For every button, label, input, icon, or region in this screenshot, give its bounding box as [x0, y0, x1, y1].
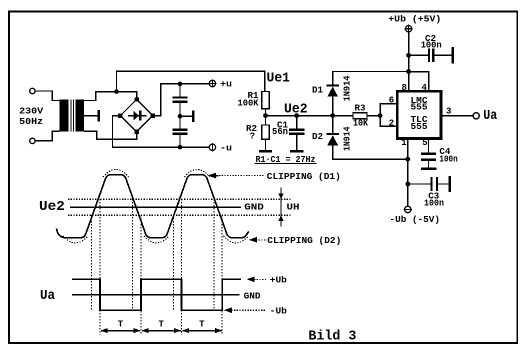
node C1 junction [294, 113, 299, 118]
wire [179, 135, 181, 147]
pin 4 wire [409, 72, 429, 91]
diode D1 [326, 84, 339, 86]
svg-text:100n: 100n [421, 41, 442, 51]
svg-text:D2: D2 [312, 132, 323, 142]
svg-text:CLIPPING (D1): CLIPPING (D1) [267, 172, 341, 182]
svg-text:Ua: Ua [40, 288, 56, 304]
svg-text:4: 4 [421, 83, 427, 93]
svg-text:Ue1: Ue1 [267, 70, 291, 86]
ground cap midpoint [192, 110, 195, 122]
capacitor C2 [428, 48, 430, 62]
transformer T1 secondary winding [76, 100, 85, 132]
ground C4 [421, 168, 436, 171]
wire primary top [35, 91, 59, 101]
svg-text:CLIPPING (D2): CLIPPING (D2) [267, 236, 341, 246]
terminal Ua [473, 113, 479, 119]
svg-text:-Ub: -Ub [270, 306, 287, 316]
svg-text:3: 3 [446, 107, 451, 117]
svg-text:T: T [199, 319, 205, 329]
svg-text:100n: 100n [424, 199, 444, 209]
wire D2 to -Ub rail [333, 145, 408, 159]
transformer T1 primary winding [60, 100, 69, 132]
bridge diode symbol [128, 115, 146, 117]
svg-text:+Ub (+5V): +Ub (+5V) [388, 15, 441, 25]
wire bridge minus to -u rail [113, 116, 210, 148]
svg-text:T: T [118, 319, 124, 329]
wire R2 to ground [265, 139, 267, 150]
svg-text:100n: 100n [439, 155, 457, 165]
node R3 right [378, 113, 383, 118]
diode D2 [326, 133, 339, 135]
svg-text:1N914: 1N914 [343, 75, 353, 101]
node +Ub pins junction [406, 69, 411, 74]
wire D1 to +Ub rail [333, 72, 409, 85]
wire to pins 6 and 2 [380, 104, 397, 127]
terminal +Ub [405, 26, 411, 32]
dotted sine peak arcs [103, 170, 129, 178]
svg-text:1: 1 [401, 138, 407, 148]
capacitor C4 [421, 153, 436, 156]
pin 8 wire [408, 72, 410, 92]
transformer core [70, 100, 72, 132]
arrow -Ub [224, 307, 232, 313]
marker dotted verticals A [91, 215, 93, 309]
svg-text:10K: 10K [353, 119, 369, 129]
wire primary bottom [35, 131, 59, 141]
terminal 230V bottom [30, 138, 35, 143]
node C2 junction [406, 53, 411, 58]
svg-text:?: ? [250, 131, 255, 141]
svg-text:555: 555 [411, 103, 428, 113]
svg-text:UH: UH [287, 203, 300, 213]
svg-text:100K: 100K [238, 99, 260, 109]
terminal +u [209, 80, 215, 86]
terminal 230V top [30, 88, 35, 93]
wire R1 to node Ue2 [265, 109, 267, 125]
svg-text:6: 6 [389, 96, 394, 106]
node -Ub D2 junction [405, 157, 410, 162]
GND axis [72, 294, 239, 296]
svg-text:-Ub (-5V): -Ub (-5V) [390, 215, 441, 225]
terminal -u [209, 144, 215, 150]
wire +Ub down [408, 32, 410, 91]
pin 5 wire [428, 139, 430, 153]
wire secondary top [84, 92, 137, 101]
ground center tap [97, 110, 100, 122]
marker dotted verticals B [99, 199, 101, 334]
capacitor smoothing upper [173, 96, 188, 98]
wire C2 to ground [434, 54, 451, 56]
resistor R3 [353, 113, 367, 119]
svg-text:Bild 3: Bild 3 [308, 329, 356, 345]
resistor R2 [262, 125, 270, 139]
wire to C2 [409, 54, 428, 56]
ground C2 [451, 47, 454, 64]
wire C4 to ground [428, 161, 430, 168]
wire bridge plus to +u [153, 84, 209, 116]
wire node to D1 [332, 97, 334, 116]
threshold lower dotted [68, 214, 291, 216]
node cap midpoint [178, 114, 183, 119]
wire secondary center tap [84, 115, 97, 117]
capacitor C1 [289, 128, 304, 130]
node -u cap junction [178, 145, 183, 150]
wire [296, 116, 298, 129]
svg-text:1N914: 1N914 [343, 126, 353, 151]
svg-text:Ua: Ua [483, 108, 497, 124]
arrow CLIPPING (D2) [249, 237, 257, 243]
threshold upper dotted [68, 198, 291, 200]
wire C1 to ground [296, 135, 298, 150]
square wave [72, 279, 241, 310]
svg-text:T: T [158, 319, 164, 329]
wire C3 to ground [438, 183, 448, 185]
wire node to D2 [332, 116, 334, 133]
node AC top: wire up to Ue1 rail [117, 71, 265, 91]
svg-text:D1: D1 [312, 86, 324, 96]
svg-text:GND: GND [244, 203, 264, 213]
svg-text:555: 555 [411, 122, 428, 132]
ground C1 [290, 150, 303, 153]
svg-text:2: 2 [389, 118, 394, 128]
svg-text:Ue2: Ue2 [39, 199, 65, 215]
ground C3 [448, 176, 451, 192]
bridge corner nodes [135, 97, 139, 101]
node Ue2 diode junction [330, 113, 335, 118]
svg-text:+Ub: +Ub [270, 276, 287, 286]
bridge rectifier diamond [120, 99, 152, 131]
svg-text:GND: GND [244, 291, 262, 301]
wire to ground [180, 115, 192, 117]
wire Ue2 rail [266, 115, 381, 117]
pin 3 wire to Ua [441, 115, 473, 117]
svg-text:230V: 230V [19, 106, 44, 116]
wire [179, 84, 181, 96]
wire secondary bottom [84, 131, 137, 139]
wire [179, 103, 181, 129]
svg-text:R3: R3 [355, 104, 366, 114]
arrow +Ub [247, 277, 255, 283]
capacitor smoothing lower [173, 129, 188, 131]
pin 1 wire [407, 139, 409, 207]
UH arrow [280, 188, 282, 227]
clipped sine solid [57, 175, 249, 238]
svg-text:50Hz: 50Hz [19, 117, 43, 127]
node +u cap junction [178, 82, 183, 87]
svg-text:-u: -u [220, 143, 232, 153]
svg-text:5: 5 [422, 138, 427, 148]
resistor R1 [262, 92, 270, 109]
ground R2 [259, 150, 272, 153]
svg-text:56n: 56n [272, 127, 288, 137]
period T arrows [101, 330, 140, 332]
svg-text:8: 8 [401, 83, 406, 93]
node C3 junction [405, 182, 410, 187]
GND axis [70, 206, 241, 208]
IC U1 LMC555/TLC555 timer [397, 91, 441, 138]
capacitor C3 [430, 177, 432, 191]
terminal -Ub [405, 206, 411, 212]
wire to C3 [408, 183, 431, 185]
svg-text:+u: +u [220, 80, 232, 90]
node Ue2 junction [263, 113, 268, 118]
arrow CLIPPING (D1) [208, 173, 216, 179]
